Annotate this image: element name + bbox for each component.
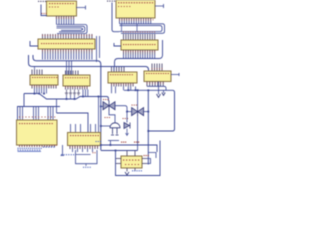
U2 bottom pin numbers — [119, 19, 154, 20]
U2 inner text row2 — [118, 5, 130, 8]
G bottom arrow — [125, 172, 129, 175]
junction dot S2 tap — [126, 111, 128, 113]
IC E top pin numbers — [19, 117, 55, 118]
main right rail loop — [124, 90, 175, 131]
S2 top wire — [126, 112, 128, 123]
U1 left wire — [41, 5, 47, 16]
U3 inner text — [41, 43, 93, 44]
junction dot RL-F — [98, 96, 100, 98]
rail to F — [57, 113, 89, 133]
IC U2 body — [116, 0, 155, 18]
mid bus inner — [33, 55, 101, 150]
IC A bottom pins — [32, 85, 56, 89]
mid bus outer — [29, 55, 149, 71]
triac X1 — [103, 101, 115, 111]
IC D arrow wire 1 — [157, 82, 161, 98]
X1 bottom wire — [109, 111, 115, 123]
IC D body — [144, 71, 171, 82]
G left label — [96, 141, 102, 142]
G bottom label — [132, 170, 142, 171]
junction dot G left — [115, 150, 117, 152]
X2 bottom wire — [137, 117, 139, 151]
IC C top wire — [113, 67, 115, 73]
S1 label — [105, 117, 111, 118]
G area top wire — [101, 145, 157, 152]
IC D right stub — [171, 73, 179, 76]
junction dot X2 right — [147, 111, 149, 113]
IC E top pin wires — [20, 107, 53, 121]
IC D bottom pins — [147, 82, 163, 87]
U2 inner text row1 — [118, 2, 153, 3]
RL to F wire — [98, 97, 100, 133]
U2 to U4 wire bus — [119, 22, 165, 34]
X1 gate wire and junction — [100, 106, 103, 108]
IC U1 body — [47, 1, 77, 16]
main left rail — [24, 94, 108, 102]
IC G body — [121, 156, 142, 168]
U4 bottom pin wires — [124, 55, 155, 59]
left rail — [18, 107, 61, 120]
IC E bottom pins — [20, 145, 55, 147]
S1 left wire and junction — [100, 125, 110, 127]
G label 2 — [134, 142, 139, 143]
U2 right stub — [155, 4, 164, 8]
U3 left bracket — [30, 41, 38, 46]
U1 bottom pin numbers — [56, 17, 74, 18]
buzzer S1 — [110, 123, 120, 135]
U4 bottom pin numbers — [123, 51, 155, 52]
IC B top tall wires — [67, 61, 72, 75]
U1 inner text row1 — [49, 3, 74, 4]
U3 bottom pin numbers — [42, 50, 92, 51]
IC D arrow wire 2 — [162, 90, 165, 95]
junction dot rail C drop — [147, 89, 149, 91]
rail drop — [56, 99, 58, 113]
junction dot — [100, 144, 102, 146]
IC E bottom net labels row1 — [18, 148, 42, 149]
U4 top pins — [124, 34, 155, 40]
X2 right wire — [144, 111, 149, 113]
IC D lower rail — [147, 86, 166, 90]
G right label — [144, 155, 149, 156]
U1 left label — [42, 13, 47, 14]
U2 bus verticals — [122, 24, 138, 32]
X2 label — [132, 105, 138, 106]
IC C top pins — [112, 67, 125, 72]
S1 bottom wire — [108, 140, 119, 142]
IC F bottom pin numbers — [70, 146, 98, 149]
IC B inner text — [65, 77, 88, 78]
IC B top pins — [66, 71, 79, 76]
IC B bottom pins — [66, 86, 88, 90]
U3 right wire a — [96, 36, 98, 62]
U1 bottom pins — [57, 16, 74, 20]
junction dot rail D — [147, 130, 149, 132]
IC D top pin numbers — [152, 67, 163, 70]
IC U4 body — [121, 40, 158, 50]
IC B body — [63, 75, 90, 86]
IC F body — [68, 133, 101, 146]
U3 right wire b — [99, 36, 101, 58]
U1 to U3 wire bus — [57, 20, 88, 34]
G label 1 — [121, 142, 126, 143]
U2 designator — [107, 1, 115, 2]
U4 left bracket — [114, 43, 121, 46]
IC F tick label — [83, 167, 91, 168]
IC C bottom wires — [112, 87, 137, 94]
U1 inner text row2 — [49, 6, 59, 9]
U3 bottom pin wires — [43, 54, 92, 60]
U4 right wire — [115, 40, 163, 67]
IC A bottom wires — [34, 89, 47, 95]
IC E bottom pin numbers — [19, 145, 50, 148]
U1 designator — [38, 1, 46, 2]
triac X2 — [132, 106, 144, 116]
IC C body — [108, 72, 137, 83]
IC D inner text — [146, 73, 169, 74]
U4 top pin numbers — [123, 32, 155, 33]
S2 label — [123, 118, 129, 119]
junction dot X2 top — [137, 89, 139, 91]
U2 left wire — [112, 3, 119, 32]
IC B bottom wires — [82, 90, 88, 98]
IC E bottom right labels — [43, 147, 55, 148]
IC C bottom pins — [112, 83, 134, 87]
IC F inner text — [70, 135, 99, 136]
S2 bottom wire — [126, 129, 129, 136]
IC A top wire — [34, 67, 36, 70]
U3 top pins — [43, 34, 92, 39]
diode S2 — [124, 123, 130, 129]
IC F bottom pins — [70, 146, 98, 150]
left rail vertical — [23, 94, 25, 107]
IC C inner text — [110, 74, 133, 75]
IC A bottom pin numbers — [32, 85, 57, 88]
IC D bottom pin numbers — [147, 82, 164, 85]
IC A body — [30, 75, 58, 85]
IC E net label underline — [18, 150, 42, 152]
IC B ground stems to rail — [67, 95, 75, 99]
X1 to X2 wire — [115, 106, 132, 112]
rail C drop — [147, 90, 149, 164]
IC F bottom wires — [73, 149, 93, 152]
U3 top pin numbers — [42, 35, 92, 36]
IC E right drop wire — [61, 145, 65, 156]
IC D top pins — [152, 64, 162, 72]
U1 right stub — [76, 6, 86, 10]
IC G inner text 2 — [125, 164, 139, 165]
IC F loop red mark — [93, 152, 96, 153]
IC G pins — [116, 151, 147, 172]
U4 inner text — [123, 44, 156, 45]
IC B bottom pin numbers — [65, 86, 88, 89]
IC F loop tick — [85, 164, 87, 166]
IC A top pins — [32, 70, 42, 76]
IC F loop wire — [76, 150, 98, 164]
IC E bottom right red marks — [51, 145, 57, 146]
X1 label — [103, 99, 109, 100]
IC G inner text — [123, 160, 139, 161]
U3 bottom pins — [43, 49, 92, 54]
IC U3 body — [38, 39, 95, 49]
S1 drop to G rail — [110, 141, 112, 146]
IC E bottom net labels row2 — [18, 150, 41, 151]
IC B bottom ground marks — [65, 90, 80, 96]
G area left wire — [116, 141, 161, 176]
IC F bottom net labels — [61, 154, 74, 155]
G right zig — [147, 153, 156, 164]
IC F top pin wires — [71, 124, 96, 133]
U2 bottom pins — [120, 18, 151, 22]
X2 top wire — [137, 90, 139, 106]
U4 bottom pins — [124, 50, 155, 55]
IC C bottom pin numbers — [111, 83, 134, 86]
IC E body — [17, 120, 58, 145]
IC E inner text — [19, 123, 53, 124]
G area mid wire — [101, 150, 138, 152]
IC A inner text — [32, 77, 57, 78]
